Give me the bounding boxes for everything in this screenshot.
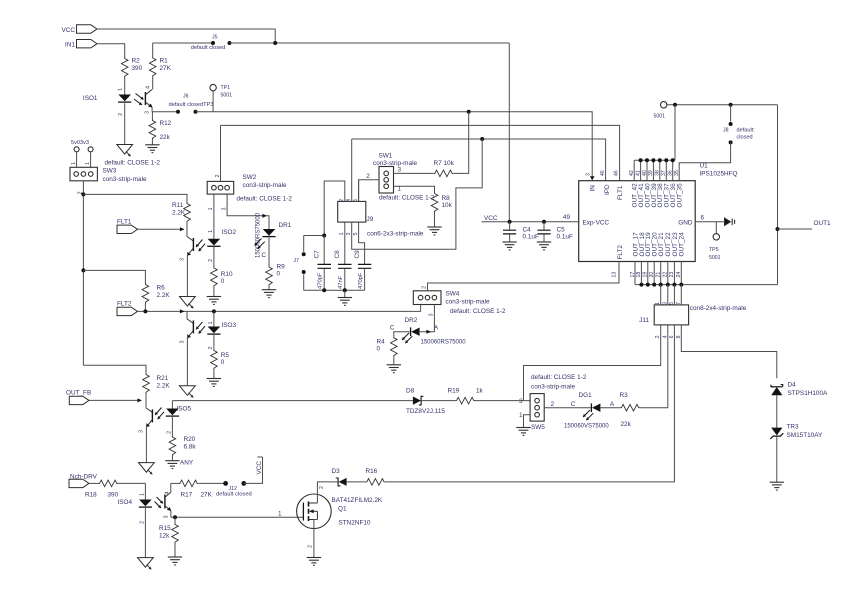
wire ISO3 LED to R5: [213, 334, 215, 349]
svg-text:12k: 12k: [159, 533, 170, 540]
J9 pin3 wire: [352, 139, 483, 249]
wire J8 to OUT_35 pin: [679, 142, 730, 180]
svg-text:con8-2x4-strip-male: con8-2x4-strip-male: [690, 305, 747, 312]
ground TR3: [770, 481, 784, 483]
svg-text:FLT1: FLT1: [117, 218, 132, 225]
svg-text:150060VS75000: 150060VS75000: [564, 423, 609, 429]
wire SW3 to R11: [83, 194, 187, 202]
ISO5 light arrows: [155, 408, 162, 416]
svg-text:con3-strip-male: con3-strip-male: [243, 182, 287, 189]
resistor R8: [431, 192, 438, 213]
diode D3: [339, 478, 347, 486]
DG1 light arrows: [583, 410, 590, 417]
ISO4 light arrows: [157, 497, 164, 504]
svg-text:2: 2: [308, 545, 314, 548]
svg-text:J6: J6: [183, 94, 189, 100]
SW1 pin3 wire: [394, 172, 434, 174]
svg-text:OUT1: OUT1: [814, 220, 831, 227]
svg-text:1: 1: [655, 302, 661, 305]
svg-text:4: 4: [662, 335, 668, 338]
svg-text:J9: J9: [367, 216, 374, 223]
svg-text:0: 0: [221, 359, 225, 366]
svg-text:27K: 27K: [201, 492, 213, 499]
svg-text:2.2K: 2.2K: [157, 292, 171, 299]
svg-text:2: 2: [118, 113, 124, 116]
jumper J5: [153, 42, 213, 44]
wire R17 to J12: [198, 482, 225, 484]
port OUT1: [778, 228, 813, 230]
svg-text:2: 2: [339, 199, 345, 202]
svg-text:1: 1: [208, 207, 214, 210]
wire IN1 to R2: [97, 44, 125, 57]
wire rail to ground: [344, 290, 346, 297]
svg-text:C5: C5: [557, 227, 566, 234]
svg-text:DG1: DG1: [579, 392, 593, 399]
LED DG1: [590, 403, 592, 412]
ISO2 transistor: [186, 229, 188, 237]
svg-text:47nF: 47nF: [338, 275, 344, 289]
wire DR2 to R4: [394, 332, 411, 337]
svg-text:J8: J8: [723, 128, 729, 134]
port FLT2: [117, 307, 138, 315]
wire R6 to FLT2 row: [144, 304, 146, 311]
DR2 anode arrow: [426, 330, 431, 334]
wire ISO4 LED to ground: [144, 507, 146, 557]
wire DG1 to R3: [600, 407, 620, 409]
svg-text:VCC: VCC: [62, 27, 76, 34]
wire OUT_FB: [89, 399, 141, 401]
wire S001 to bus: [674, 105, 676, 160]
svg-text:R9: R9: [277, 264, 286, 271]
svg-text:SW2: SW2: [243, 174, 257, 181]
svg-text:3: 3: [164, 515, 170, 518]
ISO4 LED: [139, 500, 152, 507]
wire emitter to gate row: [171, 516, 304, 518]
ground R10: [207, 296, 221, 298]
resistor R11: [184, 202, 191, 223]
ground Q1: [307, 557, 321, 559]
wire R19 to SW5: [475, 400, 530, 402]
wire DR1 top: [266, 216, 269, 229]
wire R3 to J11 pin4: [640, 325, 668, 408]
svg-text:R18: R18: [85, 492, 97, 499]
svg-text:5001: 5001: [221, 93, 233, 99]
capacitor C8: [338, 264, 351, 268]
svg-text:2: 2: [208, 346, 214, 349]
svg-text:SW5: SW5: [531, 424, 545, 431]
wire ISO1 LED to ground: [124, 103, 126, 144]
ISO5 LED: [166, 409, 179, 416]
SW4 pin2 wire to FLT2 pin: [428, 262, 620, 291]
svg-text:FLT1: FLT1: [617, 185, 624, 200]
svg-text:SW1: SW1: [379, 153, 393, 160]
svg-text:default: CLOSE 1-2: default: CLOSE 1-2: [379, 195, 435, 202]
svg-text:J11: J11: [639, 317, 649, 324]
J9 pin1 wire: [344, 222, 346, 264]
svg-text:1: 1: [278, 511, 282, 518]
wire R20 to ground: [171, 457, 173, 461]
wire right rail: [777, 105, 779, 285]
wire DR1 to R9: [268, 238, 270, 266]
port Nch-DRV: [69, 479, 89, 487]
svg-text:TP1: TP1: [221, 85, 231, 91]
U1 FLT2 pin wire: [618, 262, 620, 284]
wire SW3 to R21: [83, 365, 146, 373]
ISO5 transistor: [145, 400, 147, 408]
ground ISO3 transistor: [180, 386, 196, 396]
svg-text:R21: R21: [157, 375, 169, 382]
svg-text:2: 2: [140, 521, 146, 524]
J9 pin5 wire: [359, 222, 365, 264]
Q1 drain wire: [317, 482, 338, 503]
svg-text:1: 1: [339, 232, 345, 235]
svg-text:3: 3: [222, 207, 228, 210]
J9 pin4 wire: [351, 139, 353, 201]
wire R1 top: [152, 43, 154, 57]
ISO1 transistor: [144, 92, 146, 105]
wire 5v0 to SW3: [76, 152, 78, 168]
ground R9: [262, 289, 276, 291]
svg-text:con3-strip-male: con3-strip-male: [446, 299, 490, 306]
ISO1 LED: [118, 95, 131, 102]
wire SW2 pin3: [227, 194, 266, 216]
svg-text:OUT_24: OUT_24: [679, 232, 686, 257]
svg-text:46: 46: [614, 170, 620, 176]
svg-text:default closed: default closed: [216, 491, 252, 497]
svg-text:R17: R17: [181, 492, 193, 499]
svg-text:ISO1: ISO1: [83, 95, 98, 102]
wire FLT1: [138, 228, 184, 230]
svg-text:22k: 22k: [160, 134, 171, 141]
svg-text:Exp-VCC: Exp-VCC: [583, 219, 610, 226]
connector SW1: [379, 167, 394, 194]
svg-text:R15: R15: [159, 525, 171, 532]
svg-text:R6: R6: [157, 285, 166, 292]
svg-text:default: CLOSE 1-2: default: CLOSE 1-2: [237, 196, 293, 203]
svg-text:DR2: DR2: [405, 317, 418, 324]
wire IPD net: [352, 139, 606, 181]
SW5 frame wire from J11 pin2: [524, 325, 661, 401]
svg-text:ISO4: ISO4: [118, 499, 133, 506]
svg-text:7: 7: [676, 302, 682, 305]
ground R15: [168, 556, 182, 558]
svg-text:IN: IN: [590, 185, 597, 192]
resistor R4: [391, 336, 398, 357]
port OUT_FB: [69, 396, 89, 404]
resistor R16: [365, 479, 385, 486]
svg-text:OUT_21: OUT_21: [658, 232, 665, 257]
SW1 pin1 wire: [394, 186, 435, 192]
svg-text:1: 1: [118, 88, 124, 91]
svg-text:390: 390: [108, 492, 119, 499]
ground ISO5 transistor: [139, 463, 155, 473]
svg-text:2.2K: 2.2K: [157, 383, 171, 390]
resistor R7: [433, 170, 453, 177]
svg-text:J5: J5: [212, 35, 218, 41]
svg-text:3: 3: [180, 340, 186, 343]
SW4 pin1 wire: [420, 305, 422, 312]
wire VCC down to C4C5: [508, 43, 510, 222]
svg-text:4: 4: [165, 491, 171, 494]
svg-text:con6-2x3-strip-male: con6-2x3-strip-male: [367, 231, 424, 238]
svg-text:R8: R8: [442, 195, 451, 202]
svg-text:Q1: Q1: [338, 506, 347, 513]
svg-text:5001: 5001: [709, 255, 721, 261]
svg-text:3: 3: [145, 111, 151, 114]
testpoint TP1: [210, 84, 216, 90]
svg-text:R11: R11: [172, 202, 184, 209]
svg-text:470pF: 470pF: [318, 272, 324, 289]
ground caps: [338, 297, 352, 299]
diode D4: [771, 385, 783, 387]
connector J9: [338, 201, 366, 222]
svg-text:OUT_35: OUT_35: [677, 183, 684, 208]
jumper J8: [730, 105, 732, 122]
svg-text:C7: C7: [314, 250, 321, 259]
svg-text:U1: U1: [700, 163, 709, 170]
svg-text:J7: J7: [294, 258, 300, 264]
resistor R5: [211, 349, 218, 370]
wire R1 to ISO1 collector: [152, 78, 154, 90]
resistor R19: [455, 397, 475, 404]
LED DR1: [263, 229, 276, 236]
IN pin arrow: [590, 176, 595, 180]
resistor R20: [169, 436, 176, 457]
jumper J7: [304, 235, 325, 237]
svg-text:0: 0: [277, 271, 281, 278]
svg-text:2: 2: [366, 173, 370, 180]
svg-text:ANY: ANY: [180, 460, 194, 467]
DR2 light arrows: [402, 333, 409, 340]
svg-text:C8: C8: [334, 250, 341, 259]
wire R10 to ground: [213, 288, 215, 297]
wire S001 row: [667, 104, 778, 106]
wire collector to R17: [171, 482, 179, 484]
svg-text:default:: default:: [737, 128, 756, 134]
jumper J6: [176, 110, 180, 114]
svg-text:R19: R19: [448, 387, 460, 394]
svg-text:4: 4: [146, 86, 152, 89]
wire 3v3 to SW3: [90, 152, 92, 168]
svg-text:IPD: IPD: [604, 184, 611, 195]
svg-text:GND: GND: [678, 219, 693, 226]
wire D3 to R16: [347, 481, 366, 483]
svg-text:default closedTP3: default closedTP3: [169, 102, 214, 108]
IC U1 outline: [579, 181, 696, 262]
svg-text:R16: R16: [366, 468, 378, 475]
wire FLT1 net to U1: [221, 125, 620, 180]
Q1 source wire: [314, 520, 318, 558]
node SW3-R11: [81, 192, 85, 196]
svg-text:1: 1: [71, 162, 77, 165]
wire R11 to node: [186, 223, 188, 229]
connector SW5: [530, 394, 544, 422]
ground R5: [207, 378, 221, 380]
wire D4 to TR3: [776, 395, 778, 427]
resistor R3: [620, 404, 640, 411]
svg-text:13: 13: [612, 272, 618, 278]
svg-text:6: 6: [701, 214, 705, 221]
svg-text:R7: R7: [434, 160, 443, 167]
wire R21 to node: [145, 394, 147, 400]
wire ISO5 to D8: [172, 400, 413, 402]
U1 bottom pin wires: [634, 262, 636, 285]
SW5 pin2 wire: [544, 407, 591, 409]
svg-text:470pF: 470pF: [358, 272, 364, 289]
svg-text:SW3: SW3: [103, 168, 117, 175]
svg-text:SM15T10AY: SM15T10AY: [787, 432, 823, 439]
J11 pin6 wire: [385, 325, 674, 482]
svg-text:0: 0: [377, 346, 381, 353]
svg-text:OUT_FB: OUT_FB: [66, 389, 91, 396]
svg-text:3: 3: [519, 398, 523, 405]
resistor R12: [151, 112, 153, 119]
wire ISO3 LED stub: [213, 311, 215, 326]
U1 top bus: [634, 159, 675, 161]
svg-text:R1: R1: [160, 58, 169, 65]
svg-text:1: 1: [85, 162, 91, 165]
svg-text:2: 2: [208, 259, 214, 262]
svg-text:A: A: [434, 325, 439, 332]
svg-text:3: 3: [586, 173, 592, 176]
svg-text:3: 3: [398, 167, 402, 174]
svg-text:5001: 5001: [654, 114, 666, 120]
svg-text:R3: R3: [620, 392, 629, 399]
SW3 top pin circles: [74, 147, 79, 152]
svg-text:2: 2: [319, 486, 325, 489]
svg-text:5v03v3: 5v03v3: [71, 140, 89, 146]
ISO3 light arrows: [196, 322, 203, 330]
resistor R6: [142, 283, 149, 304]
svg-text:4: 4: [346, 199, 352, 202]
svg-text:TP5: TP5: [709, 247, 719, 253]
diode D8: [413, 397, 421, 405]
svg-text:2: 2: [655, 335, 661, 338]
wire SW3 to R6: [83, 270, 145, 283]
svg-text:C: C: [390, 325, 395, 332]
resistor R2: [121, 57, 128, 78]
testpoint S001: [661, 102, 667, 108]
connector SW2: [207, 181, 234, 194]
ISO3 LED: [208, 327, 221, 334]
svg-text:C: C: [571, 401, 576, 408]
ISO3 transistor: [186, 311, 188, 319]
VCC stub: [257, 456, 262, 458]
J9 pin2 wire: [324, 181, 345, 236]
svg-text:C: C: [261, 252, 266, 259]
svg-text:3: 3: [429, 313, 435, 316]
capacitor C5: [543, 222, 545, 230]
svg-text:0: 0: [221, 278, 225, 285]
svg-text:ISO5: ISO5: [177, 406, 192, 413]
port VCC: [77, 25, 98, 33]
J11 pin8 wire: [681, 325, 777, 378]
ISO2 LED: [208, 239, 221, 246]
wire J12 to VCC: [244, 457, 263, 483]
svg-text:closed: closed: [737, 135, 753, 141]
ISO2 light arrows: [196, 240, 203, 248]
svg-text:3: 3: [139, 430, 145, 433]
svg-text:D3: D3: [332, 468, 341, 475]
svg-text:1: 1: [519, 412, 523, 419]
connector SW4: [413, 291, 441, 305]
svg-text:46: 46: [600, 170, 606, 176]
ISO4 transistor: [164, 495, 166, 509]
ISO1 light arrows: [136, 94, 144, 100]
wire VCC rail: [97, 29, 275, 43]
wire R7 to J6 row: [453, 112, 468, 174]
svg-text:1: 1: [140, 493, 146, 496]
svg-text:3: 3: [662, 302, 668, 305]
SW4 pin3 wire: [420, 305, 435, 332]
wire J6 row to IN pin: [469, 112, 593, 178]
svg-text:D8: D8: [406, 387, 415, 394]
svg-text:FLT2: FLT2: [617, 245, 624, 260]
svg-text:default: CLOSE 1-2: default: CLOSE 1-2: [450, 308, 506, 315]
svg-text:D4: D4: [788, 381, 797, 388]
ground ISO4: [138, 558, 154, 568]
svg-text:R20: R20: [184, 436, 196, 443]
svg-text:IPS1025HFQ: IPS1025HFQ: [700, 171, 738, 178]
wire R4 to ground: [393, 357, 395, 364]
wire cap ground rail: [304, 289, 365, 291]
SW1 pin2 wire: [359, 180, 379, 202]
testpoint TP5: [715, 222, 717, 234]
TVS TR3: [771, 428, 782, 436]
svg-text:150060RS75000: 150060RS75000: [421, 340, 467, 346]
connector SW3: [70, 167, 97, 181]
svg-text:R5: R5: [221, 352, 230, 359]
svg-text:R12: R12: [160, 120, 172, 127]
svg-text:A: A: [610, 401, 615, 408]
svg-text:0.1uF: 0.1uF: [523, 234, 539, 241]
jumper J12: [223, 481, 228, 486]
resistor R17: [178, 480, 198, 487]
J11 top pin wires: [660, 285, 662, 305]
svg-text:3: 3: [180, 258, 186, 261]
svg-text:TDZ8V2J,115: TDZ8V2J,115: [406, 408, 445, 415]
svg-text:SW4: SW4: [446, 291, 460, 298]
resistor R15: [174, 517, 176, 523]
resistor R1: [149, 57, 156, 78]
wire SW2 pin1 down: [213, 194, 215, 239]
svg-text:R10: R10: [221, 271, 233, 278]
ground R8: [427, 226, 441, 228]
port FLT1: [117, 225, 138, 233]
capacitor C9: [358, 264, 371, 268]
svg-text:con3-strip-male: con3-strip-male: [531, 383, 575, 390]
svg-text:BAT41ZFILM2.2K: BAT41ZFILM2.2K: [332, 497, 383, 504]
svg-text:1: 1: [398, 186, 402, 193]
wire SW2 pin2 up: [220, 125, 222, 181]
wire J6 to TP1: [196, 111, 469, 113]
wire R15 to ground: [174, 544, 176, 557]
svg-text:49: 49: [563, 214, 571, 221]
wire ISO1 emitter row: [152, 111, 178, 113]
svg-text:10k: 10k: [442, 202, 453, 209]
node SW3-R6: [81, 268, 85, 272]
U1 top pin wires: [633, 160, 635, 181]
wire TR3 to ground: [776, 436, 778, 482]
svg-text:default closed: default closed: [191, 45, 226, 51]
svg-text:VCC: VCC: [256, 461, 263, 475]
svg-text:1: 1: [208, 230, 214, 233]
svg-text:10k: 10k: [444, 160, 455, 167]
wire R8 to ground: [434, 213, 436, 227]
resistor R9: [266, 266, 273, 287]
wire VCC label row: [482, 221, 579, 223]
svg-text:0.1uF: 0.1uF: [557, 234, 573, 241]
